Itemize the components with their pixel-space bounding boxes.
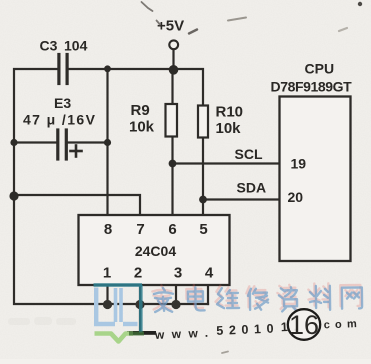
svg-text:1: 1 xyxy=(103,265,111,282)
book top edge teal xyxy=(94,283,143,287)
junction node +5V xyxy=(169,65,179,75)
wire E3 row right xyxy=(68,141,107,143)
svg-text:104: 104 xyxy=(64,38,88,54)
+5V terminal stem xyxy=(172,50,174,70)
svg-text:www.: www. xyxy=(154,325,216,342)
IC 24C04 box xyxy=(79,215,230,285)
junction node bus pin2 xyxy=(135,300,144,309)
watermark book logo xyxy=(94,285,145,342)
svg-text:6: 6 xyxy=(168,221,176,238)
svg-text:47 μ /16V: 47 μ /16V xyxy=(23,112,96,128)
svg-text:20: 20 xyxy=(288,189,304,205)
svg-text:C3: C3 xyxy=(40,38,58,54)
wire R9 column to pin6 xyxy=(171,69,173,104)
wire top bus y=69 from C3 right plate to R10 corner xyxy=(69,69,203,106)
capacitor E3 xyxy=(58,130,67,159)
wire SCL xyxy=(173,162,280,164)
wire pin1 stub xyxy=(106,285,108,304)
wire pin7 row xyxy=(14,195,140,215)
junction node SCL xyxy=(169,160,177,168)
scan artifact dark dot top right xyxy=(358,2,362,6)
ground stem xyxy=(139,304,141,331)
svg-text:SCL: SCL xyxy=(235,146,263,162)
resistor R9 xyxy=(166,104,178,137)
wire R10 column to pin5 xyxy=(202,138,204,216)
wire SDA xyxy=(203,198,280,200)
svg-text:R10: R10 xyxy=(216,104,244,121)
svg-text:52010: 52010 xyxy=(216,321,279,338)
svg-text:8: 8 xyxy=(104,221,112,238)
book left page xyxy=(96,288,115,325)
scan artifact smudge right xyxy=(339,28,347,31)
book green swoosh xyxy=(95,334,134,342)
svg-text:2: 2 xyxy=(134,265,142,282)
scan artifact faint ghost text bottom-left xyxy=(8,317,76,325)
scan artifact tick left of +5V xyxy=(157,21,161,25)
svg-text:com: com xyxy=(323,318,362,332)
svg-text:CPU: CPU xyxy=(305,61,335,77)
junction node SDA xyxy=(199,196,207,204)
wire E3 row left xyxy=(14,141,56,143)
junction node left E3 xyxy=(10,139,17,146)
svg-text:24C04: 24C04 xyxy=(135,243,176,259)
svg-text:E3: E3 xyxy=(54,95,71,111)
scan artifact dash upper xyxy=(228,18,246,21)
scan artifact pencil dash near +5V xyxy=(189,30,197,34)
svg-text:7: 7 xyxy=(136,221,144,238)
wire pin2 stub xyxy=(139,285,141,304)
svg-text:4: 4 xyxy=(205,265,214,282)
svg-text:5: 5 xyxy=(199,221,207,238)
ground bar xyxy=(127,331,156,335)
svg-text:SDA: SDA xyxy=(237,180,267,196)
+5V terminal circle xyxy=(169,40,178,49)
wire vertical x=107.5 top bus to pin8 xyxy=(106,69,108,215)
book spine verticals xyxy=(114,288,118,322)
junction node bus pin1 xyxy=(103,300,112,309)
page number circled 16 xyxy=(288,309,320,340)
CPU box xyxy=(280,97,351,262)
svg-text:3: 3 xyxy=(174,265,182,282)
svg-text:R9: R9 xyxy=(131,102,150,119)
resistor R10 xyxy=(198,106,208,138)
junction node bus pin3 xyxy=(171,300,180,309)
book right page bottom xyxy=(123,322,138,326)
watermark row2 www.520101.com xyxy=(154,317,363,342)
svg-text:10k: 10k xyxy=(216,120,242,137)
E3 plus sign xyxy=(71,146,82,157)
svg-text:+5V: +5V xyxy=(157,18,184,35)
junction node top bus x107 xyxy=(104,65,111,72)
capacitor C3 xyxy=(59,55,67,84)
svg-text:19: 19 xyxy=(291,156,307,172)
book green dark segment xyxy=(129,332,144,336)
wire pin3 stub xyxy=(175,285,177,304)
scan artifact mark bottom xyxy=(222,352,228,354)
svg-text:10k: 10k xyxy=(129,119,155,136)
svg-text:D78F9189GT: D78F9189GT xyxy=(271,79,353,95)
junction node E3 right xyxy=(104,139,111,146)
wire pin4 stub xyxy=(207,285,209,304)
wire top bus y=69 left segment to C3 xyxy=(14,69,208,304)
svg-text:16: 16 xyxy=(289,310,319,340)
book right edge teal xyxy=(139,285,143,333)
junction node left pin7 row xyxy=(9,191,18,200)
